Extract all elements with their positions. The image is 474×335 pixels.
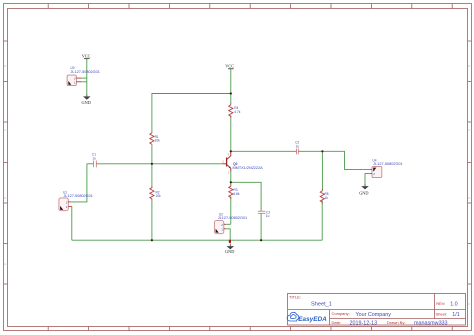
svg-text:Drawn By:: Drawn By: xyxy=(387,320,405,325)
svg-text:E: E xyxy=(4,262,6,266)
svg-text:GND: GND xyxy=(359,191,368,196)
svg-text:EasyEDA: EasyEDA xyxy=(298,316,327,323)
svg-text:1.0: 1.0 xyxy=(450,301,458,307)
svg-text:manasmw333: manasmw333 xyxy=(414,320,448,326)
svg-text:4.7k: 4.7k xyxy=(234,110,240,114)
svg-text:2019-12-13: 2019-12-13 xyxy=(350,320,378,326)
svg-text:10k: 10k xyxy=(156,194,162,198)
svg-text:JL127-50802G01: JL127-50802G01 xyxy=(218,216,247,220)
svg-text:6.8k: 6.8k xyxy=(234,192,240,196)
svg-text:Your Company: Your Company xyxy=(356,312,392,318)
svg-text:1u: 1u xyxy=(266,214,270,218)
svg-text:Sheet:: Sheet: xyxy=(436,312,448,317)
svg-text:GND: GND xyxy=(225,249,234,254)
svg-text:JL127-50802G01: JL127-50802G01 xyxy=(373,162,402,166)
svg-text:JL127-50802G01: JL127-50802G01 xyxy=(71,70,100,74)
svg-text:1/1: 1/1 xyxy=(452,312,460,318)
svg-text:1u: 1u xyxy=(296,145,300,149)
svg-text:GND: GND xyxy=(82,100,91,105)
svg-text:10k: 10k xyxy=(155,139,161,143)
svg-text:MMTX1/2N2222A: MMTX1/2N2222A xyxy=(233,166,264,170)
svg-text:VCC: VCC xyxy=(82,54,91,59)
svg-text:B: B xyxy=(468,64,470,68)
svg-text:C: C xyxy=(4,128,6,132)
svg-text:1u: 1u xyxy=(92,157,96,161)
svg-text:C: C xyxy=(468,128,470,132)
svg-text:Sheet_1: Sheet_1 xyxy=(311,302,332,308)
svg-text:D: D xyxy=(4,196,6,200)
svg-text:Company:: Company: xyxy=(332,311,350,316)
svg-text:TITLE:: TITLE: xyxy=(289,295,301,300)
svg-text:F: F xyxy=(468,302,470,306)
svg-text:REV:: REV: xyxy=(436,301,445,306)
svg-text:JL127-50802G01: JL127-50802G01 xyxy=(64,194,93,198)
svg-text:1k: 1k xyxy=(325,196,329,200)
svg-text:Date:: Date: xyxy=(332,320,342,325)
svg-text:B: B xyxy=(4,64,6,68)
svg-text:D: D xyxy=(468,196,470,200)
svg-text:VCC: VCC xyxy=(225,63,234,68)
